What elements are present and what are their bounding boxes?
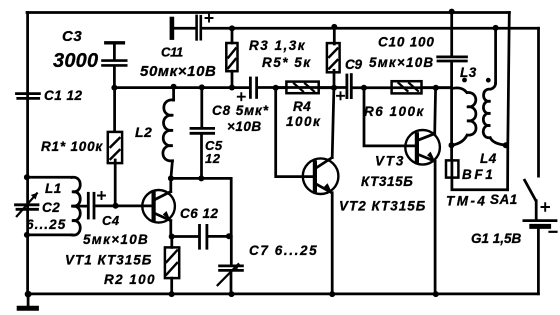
svg-text:×10В: ×10В [227, 119, 262, 134]
svg-text:C9: C9 [345, 57, 362, 72]
svg-text:5мк×10В: 5мк×10В [369, 55, 434, 70]
junction C4 / R1 bottom / VT1 base [113, 203, 119, 209]
svg-text:L4: L4 [480, 151, 497, 166]
inductor L2 [172, 87, 175, 100]
junction L1 bottom on left bus [24, 232, 30, 238]
svg-text:VT1 КТ315Б: VT1 КТ315Б [65, 253, 152, 268]
capacitor C9 [345, 75, 348, 98]
battery G1 [524, 219, 556, 222]
wire VT1 collector rail [171, 178, 231, 236]
junction VT1 collector / L2 bottom [168, 175, 174, 181]
svg-text:SA1: SA1 [490, 192, 518, 207]
svg-text:12: 12 [205, 151, 221, 166]
junction L2 top on mid bus [171, 84, 177, 90]
inductor L3 [452, 88, 476, 145]
wire right vertical from top rail [508, 13, 510, 190]
svg-text:КТ315Б: КТ315Б [361, 174, 413, 189]
earphone BF1 [446, 160, 458, 177]
junction on top rail at C10 branch [449, 9, 455, 15]
junction R4 right / R5 bottom / VT2 collector [331, 85, 337, 91]
transistor VT2 [303, 158, 339, 194]
capacitor C8 [249, 78, 252, 97]
svg-text:L2: L2 [135, 124, 152, 140]
wire left vertical bus [26, 13, 29, 294]
resistor R2 [170, 237, 173, 248]
junction R4 left / VT2 base branch [273, 85, 279, 91]
junction C5 top on mid bus [199, 84, 205, 90]
junction R2 bottom on bottom rail [169, 291, 175, 297]
capacitor C10 [450, 11, 453, 56]
capacitor C2 (variable) [16, 203, 39, 206]
svg-text:50мк×10В: 50мк×10В [140, 63, 216, 80]
node L3 phase dot [462, 78, 467, 83]
capacitor C6 [198, 225, 201, 248]
inductor L1 [27, 177, 72, 235]
resistor R3 [231, 28, 234, 43]
wire C10 down / BF1 line [450, 62, 453, 161]
junction R6 right / VT3 collector [433, 85, 439, 91]
junction L1 top on left bus [24, 174, 30, 180]
junction C7 bottom on bottom rail [229, 291, 235, 297]
svg-text:BF1: BF1 [462, 167, 495, 182]
junction C5 bottom [198, 175, 204, 181]
capacitor C3 [106, 41, 124, 44]
junction C9 right / R6 left / VT3 base branch [361, 85, 367, 91]
junction C3/R1 on mid bus [111, 85, 117, 91]
wire R4-left vertical to VT2 base [276, 88, 314, 177]
svg-text:C4: C4 [102, 213, 120, 228]
junction ground node [25, 291, 32, 298]
junction L4 top on second rail [493, 25, 499, 31]
wire bottom rail [28, 293, 538, 296]
wire C3/R1 vertical [113, 88, 116, 131]
svg-text:R1* 100к: R1* 100к [41, 139, 103, 154]
svg-text:C11: C11 [161, 45, 183, 60]
capacitor C1 [17, 92, 40, 95]
wire top rail [27, 11, 509, 14]
wire VT3 base [364, 88, 416, 146]
svg-text:R6 100к: R6 100к [364, 104, 425, 119]
junction L3 bottom / BF1 top [449, 142, 455, 148]
transistor VT3 emitter arrow [427, 152, 435, 162]
resistor R5 [333, 27, 336, 44]
transistor VT1 [116, 205, 153, 208]
svg-text:G1 1,5В: G1 1,5В [471, 231, 522, 246]
svg-text:6...25: 6...25 [26, 217, 66, 232]
svg-text:С7 6...25: С7 6...25 [249, 243, 318, 258]
wire mid bus y88 [114, 86, 249, 89]
svg-text:3000: 3000 [53, 50, 98, 72]
junction VT1 emitter / R2 top / C6 left [169, 234, 175, 240]
junction R3 top on second rail [229, 25, 235, 31]
svg-text:R2 100: R2 100 [104, 272, 156, 287]
resistor R6 [392, 81, 422, 93]
svg-text:C2: C2 [42, 200, 60, 215]
capacitor C7 arrow head [232, 264, 239, 271]
capacitor C7 (variable) [230, 236, 233, 265]
svg-text:C10 100: C10 100 [378, 35, 435, 50]
svg-text:ТМ-4: ТМ-4 [446, 194, 487, 209]
junction R3 bottom on mid bus [229, 85, 235, 91]
node L4 phase dot [486, 78, 491, 83]
inductor L4 [494, 28, 497, 83]
svg-text:5мк×10В: 5мк×10В [83, 232, 149, 247]
ground [27, 294, 30, 308]
transistor VT2 emitter arrow [324, 183, 332, 193]
svg-text:VT2 КТ315Б: VT2 КТ315Б [339, 199, 426, 214]
svg-text:100к: 100к [286, 114, 321, 129]
wire L1 tap to C4 [73, 205, 87, 208]
transistor VT1 emitter arrow [163, 211, 171, 222]
switch SA1 [537, 28, 540, 176]
capacitor C11 [170, 19, 175, 38]
junction VT3 emitter on bottom rail [433, 291, 439, 297]
junction VT2 emitter on bottom rail [329, 291, 335, 297]
junction R5 top on second rail [331, 24, 337, 30]
svg-text:C1 12: C1 12 [44, 88, 83, 103]
resistor R1 [108, 132, 122, 163]
svg-text:R4: R4 [293, 99, 311, 114]
svg-text:C8 5мк*: C8 5мк* [212, 103, 269, 118]
transistor VT3 [405, 130, 440, 165]
svg-text:C6 12: C6 12 [180, 206, 219, 221]
wire second rail y28 [202, 27, 539, 30]
svg-text:L3: L3 [460, 65, 477, 80]
junction C6 right / C7 top [226, 233, 232, 239]
svg-text:C3: C3 [62, 28, 82, 45]
capacitor C5 [200, 88, 203, 128]
svg-text:R5* 5к: R5* 5к [262, 55, 312, 70]
capacitor C2 arrow head [31, 193, 38, 200]
svg-text:VT3: VT3 [375, 154, 405, 169]
resistor R4 [276, 86, 287, 89]
svg-text:L1: L1 [45, 181, 62, 196]
capacitor C4 [87, 193, 90, 218]
wire VT1 emitter to C6 [172, 235, 199, 238]
svg-text:R3 1,3к: R3 1,3к [249, 38, 306, 53]
junction L4 bottom on right line [503, 142, 509, 148]
